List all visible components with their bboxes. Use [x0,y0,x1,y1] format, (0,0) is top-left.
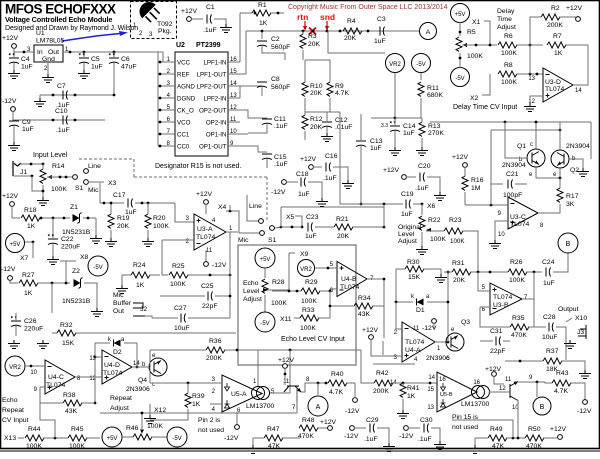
svg-text:R42: R42 [376,370,389,377]
svg-text:X10: X10 [575,315,587,322]
svg-text:-5V: -5V [93,265,102,271]
svg-text:R38: R38 [63,392,76,399]
svg-text:11: 11 [413,326,420,332]
svg-text:100K: 100K [301,298,317,305]
svg-text:CK_O: CK_O [177,108,194,115]
svg-text:4.7K: 4.7K [335,90,349,97]
svg-text:-12V: -12V [345,408,360,415]
svg-text:c: c [530,142,533,148]
svg-text:REF: REF [177,72,190,79]
svg-text:C9: C9 [22,119,31,126]
svg-text:1uF: 1uF [543,280,555,287]
svg-text:1uF: 1uF [22,126,34,133]
svg-text:Q1: Q1 [517,143,526,150]
svg-text:.1uF: .1uF [418,436,432,443]
svg-text:Copyright Music From Outer Spa: Copyright Music From Outer Space LLC 201… [288,4,448,11]
svg-text:LM13700: LM13700 [461,401,490,408]
svg-text:C12: C12 [335,117,348,124]
svg-text:100K: 100K [26,443,42,450]
svg-text:X13: X13 [4,435,16,442]
svg-text:Voltage Controlled Echo Module: Voltage Controlled Echo Module [5,15,112,24]
svg-text:1K: 1K [407,393,416,400]
svg-text:AGND: AGND [177,84,195,91]
svg-text:1uF: 1uF [370,145,382,152]
svg-text:X2: X2 [470,95,479,102]
svg-text:200K: 200K [206,355,222,362]
svg-text:560pF: 560pF [271,44,290,51]
svg-text:S1: S1 [75,185,84,192]
svg-text:.1uF: .1uF [323,175,337,182]
svg-text:R50: R50 [528,426,541,433]
svg-text:R9: R9 [335,83,344,90]
svg-text:T092: T092 [157,21,173,28]
svg-text:R18: R18 [24,207,37,214]
svg-text:-12V: -12V [2,98,17,105]
svg-text:Line: Line [249,203,262,210]
svg-text:A: A [426,29,431,36]
svg-text:.1uF: .1uF [203,27,217,34]
svg-text:C4: C4 [21,56,30,63]
svg-text:-12V: -12V [344,433,359,440]
svg-text:U5-B: U5-B [440,392,453,398]
svg-text:560pF: 560pF [271,84,290,91]
svg-text:OP1-OUT: OP1-OUT [199,144,227,151]
svg-text:Mic: Mic [113,292,124,299]
svg-text:14: 14 [428,375,435,381]
svg-text:C13: C13 [370,138,383,145]
svg-text:VR2: VR2 [300,267,312,273]
svg-text:43K: 43K [358,311,371,318]
svg-text:+12V: +12V [2,193,19,200]
svg-text:In: In [37,49,43,56]
svg-text:47K: 47K [492,443,505,450]
svg-text:R22: R22 [428,217,441,224]
svg-text:14: 14 [133,361,140,367]
svg-text:470K: 470K [298,433,314,440]
svg-text:C20: C20 [418,163,431,170]
svg-text:Adjust: Adjust [497,24,516,31]
svg-text:R26: R26 [510,259,523,266]
svg-text:snd: snd [320,12,335,22]
svg-text:10uF: 10uF [542,334,558,341]
svg-text:OP2-IN: OP2-IN [206,120,227,127]
svg-text:200K: 200K [547,22,563,29]
svg-text:.1uF: .1uF [364,436,378,443]
svg-text:PT2399: PT2399 [196,42,221,49]
svg-text:+12V: +12V [550,426,567,433]
svg-text:R5: R5 [467,29,476,36]
svg-text:-12V: -12V [271,189,286,196]
svg-text:Input Level: Input Level [33,152,68,159]
svg-text:15K: 15K [62,340,75,347]
svg-text:100pF: 100pF [503,192,522,199]
svg-text:Gnd: Gnd [42,56,55,63]
svg-text:20K: 20K [310,124,323,131]
svg-text:15K: 15K [408,274,421,281]
svg-text:R33: R33 [302,307,315,314]
svg-text:LPF2-OUT: LPF2-OUT [197,84,227,91]
svg-text:R16: R16 [471,177,484,184]
svg-text:+12V: +12V [300,156,317,163]
svg-text:470K: 470K [526,443,542,450]
svg-text:R49: R49 [490,426,503,433]
svg-text:R48: R48 [302,417,315,424]
svg-text:OP1-IN: OP1-IN [206,132,227,139]
svg-text:X8: X8 [80,254,89,261]
svg-text:R4: R4 [347,18,356,25]
svg-text:D1: D1 [416,307,425,314]
svg-text:rtn: rtn [297,12,308,22]
svg-text:OP2-OUT: OP2-OUT [199,108,227,115]
svg-text:Pkg.: Pkg. [158,28,172,35]
svg-text:100K: 100K [300,325,316,332]
svg-text:-12V: -12V [224,435,239,442]
svg-text:R25: R25 [172,263,185,270]
svg-text:R10: R10 [310,83,323,90]
svg-text:100K: 100K [147,423,163,430]
svg-text:15: 15 [427,387,434,393]
svg-text:R20: R20 [153,215,166,222]
svg-text:U4-C: U4-C [48,374,64,381]
svg-text:R6: R6 [504,33,513,40]
svg-text:Echo: Echo [243,280,259,287]
svg-text:C11: C11 [274,116,286,123]
svg-text:Adjust: Adjust [110,405,129,412]
svg-text:CV Input: CV Input [2,417,29,424]
svg-text:100K: 100K [430,236,446,243]
svg-text:+12V: +12V [181,8,198,15]
svg-text:200K: 200K [373,388,389,395]
svg-text:TL074: TL074 [46,382,65,389]
svg-text:+12V: +12V [320,419,337,426]
svg-text:R32: R32 [60,322,73,329]
svg-text:TL074: TL074 [405,339,424,346]
svg-text:J2: J2 [140,306,147,313]
svg-text:Mic: Mic [238,237,249,244]
svg-text:+12V: +12V [278,357,295,364]
svg-text:Mic: Mic [88,187,99,194]
svg-text:C28: C28 [543,314,556,321]
svg-text:1uF: 1uF [21,64,33,71]
svg-text:+5V: +5V [10,242,21,248]
svg-text:20K: 20K [337,233,350,240]
svg-text:Q2: Q2 [570,167,579,174]
svg-text:100K: 100K [501,50,517,57]
svg-text:C1: C1 [206,4,215,11]
svg-text:220uF: 220uF [24,326,43,333]
svg-text:Repeat: Repeat [110,395,132,402]
svg-text:R37: R37 [546,348,559,355]
svg-text:C8: C8 [271,76,280,83]
svg-text:100K: 100K [271,300,287,307]
svg-text:R17: R17 [566,193,579,200]
svg-text:16: 16 [439,377,446,383]
svg-text:LPF2-IN: LPF2-IN [203,96,226,103]
svg-text:Time: Time [497,16,512,23]
svg-text:1K: 1K [24,290,33,297]
svg-text:1N5231B: 1N5231B [62,298,91,305]
svg-text:43K: 43K [65,408,78,415]
svg-text:LPF1-OUT: LPF1-OUT [197,72,227,79]
svg-text:1K: 1K [554,50,563,57]
svg-text:1K: 1K [136,282,145,289]
svg-text:10: 10 [498,232,505,238]
svg-text:C3: C3 [377,16,386,23]
svg-text:1N5231B: 1N5231B [62,229,91,236]
svg-text:10uF: 10uF [174,325,190,332]
svg-text:B: B [540,404,545,411]
svg-text:C15: C15 [274,154,287,161]
svg-text:R45: R45 [71,426,84,433]
svg-text:R46: R46 [126,425,139,432]
svg-text:CC1: CC1 [177,132,190,139]
svg-text:LPF1-IN: LPF1-IN [203,60,226,67]
svg-text:22pF: 22pF [202,303,218,310]
svg-text:1K: 1K [259,20,268,27]
svg-text:J3: J3 [577,329,584,336]
svg-text:S1: S1 [268,237,277,244]
svg-text:270K: 270K [428,130,444,137]
svg-text:R34: R34 [358,295,371,302]
svg-text:-12V: -12V [399,433,414,440]
svg-text:Echo Level CV Input: Echo Level CV Input [281,336,345,343]
svg-text:.01uF: .01uF [335,124,352,131]
svg-text:+12V: +12V [452,154,469,161]
svg-text:C27: C27 [174,305,187,312]
svg-text:DGND: DGND [177,96,196,103]
svg-text:U3-D: U3-D [545,79,561,86]
svg-text:Level: Level [243,288,260,295]
svg-text:4.7K: 4.7K [554,388,568,395]
svg-text:R14: R14 [52,163,65,170]
svg-text:C29: C29 [366,417,379,424]
svg-text:13: 13 [528,76,535,82]
svg-text:11: 11 [505,377,512,383]
svg-text:C25: C25 [201,283,214,290]
svg-text:Line: Line [88,163,101,170]
svg-text:Out: Out [113,308,124,315]
svg-text:C18: C18 [296,171,309,178]
svg-text:+12V: +12V [383,167,400,174]
svg-text:.1uF: .1uF [415,185,429,192]
svg-text:U3-C: U3-C [510,214,526,221]
svg-text:X1: X1 [472,19,481,26]
svg-text:R43: R43 [556,370,569,377]
svg-text:+12V: +12V [362,327,379,334]
svg-text:-5V: -5V [260,321,269,327]
svg-text:+5V: +5V [260,257,271,263]
svg-text:1K: 1K [27,223,36,230]
svg-text:C23: C23 [306,214,319,221]
svg-text:Designed and Drawn by Raymond: Designed and Drawn by Raymond J. Wilson [5,25,138,32]
svg-text:2N3904: 2N3904 [566,143,590,150]
svg-text:U3-A: U3-A [197,226,213,233]
svg-text:+5V: +5V [455,12,466,18]
svg-text:13: 13 [427,405,434,411]
svg-text:R2: R2 [551,5,560,12]
svg-text:U5-A: U5-A [231,391,247,398]
svg-text:X3: X3 [108,180,117,187]
svg-text:Output: Output [558,306,579,313]
svg-text:R41: R41 [407,385,420,392]
svg-text:R7: R7 [553,33,562,40]
svg-text:-12V: -12V [422,325,437,332]
svg-text:R47: R47 [267,426,280,433]
svg-text:20K: 20K [117,223,130,230]
svg-text:-12V: -12V [212,262,227,269]
svg-text:R40: R40 [331,371,344,378]
svg-text:4.7K: 4.7K [329,389,343,396]
svg-text:1uF: 1uF [403,130,415,137]
svg-text:Adjust: Adjust [398,238,417,245]
svg-text:X4: X4 [218,204,227,211]
svg-text:TL074: TL074 [103,370,122,377]
svg-text:1K: 1K [192,401,201,408]
svg-text:100K: 100K [509,277,525,284]
svg-text:47uF: 47uF [121,64,137,71]
svg-text:+12V: +12V [196,191,213,198]
svg-text:Original: Original [398,224,422,231]
svg-text:D2: D2 [113,349,122,356]
svg-text:not used: not used [198,427,224,434]
svg-text:LM13700: LM13700 [246,403,275,410]
svg-text:TL074: TL074 [545,86,564,93]
svg-text:2N3904: 2N3904 [502,162,526,169]
svg-text:Q4: Q4 [138,377,147,384]
svg-text:R31: R31 [452,260,465,267]
svg-text:Q3: Q3 [461,319,470,326]
svg-text:Repeat: Repeat [2,407,24,414]
svg-text:Z2: Z2 [72,268,80,275]
svg-text:U4-A: U4-A [405,347,421,354]
svg-text:R28: R28 [272,279,285,286]
svg-text:TL074: TL074 [340,284,359,291]
svg-text:20K: 20K [344,35,357,42]
svg-text:U4-D: U4-D [104,362,120,369]
svg-text:.1uF: .1uF [56,127,70,134]
svg-text:C17: C17 [113,192,126,199]
svg-text:Delay: Delay [497,8,515,15]
svg-text:C31: C31 [490,328,503,335]
svg-text:Pin 2 is: Pin 2 is [198,417,221,424]
svg-text:VR2: VR2 [389,62,401,68]
svg-text:100K: 100K [170,281,186,288]
svg-text:R44: R44 [28,426,41,433]
svg-text:47K: 47K [268,443,281,450]
svg-text:VCO: VCO [177,120,191,127]
svg-text:TL074: TL074 [493,294,512,301]
svg-text:Echo: Echo [2,397,18,404]
svg-text:C2: C2 [271,36,280,43]
svg-text:CC0: CC0 [177,144,190,151]
svg-text:1uF: 1uF [91,64,103,71]
svg-text:12: 12 [528,99,535,105]
svg-text:Level: Level [398,231,415,238]
svg-text:X6: X6 [427,203,436,210]
svg-text:3.3: 3.3 [381,123,388,129]
svg-text:1uF: 1uF [401,211,413,218]
svg-text:1M: 1M [471,185,481,192]
svg-text:220uF: 220uF [61,244,80,251]
svg-text:+12V: +12V [2,35,19,42]
svg-text:U2: U2 [176,42,185,49]
svg-text:R27: R27 [22,272,35,279]
svg-text:-12V: -12V [1,266,16,273]
svg-text:14: 14 [575,88,582,94]
svg-text:470K: 470K [511,332,527,339]
svg-text:100K: 100K [51,186,67,193]
svg-text:3K: 3K [566,201,575,208]
svg-text:U3-B: U3-B [493,302,509,309]
svg-text:C24: C24 [542,259,555,266]
svg-text:.1uF: .1uF [274,161,288,168]
svg-text:U1: U1 [36,30,45,37]
svg-text:R29: R29 [305,279,318,286]
svg-text:TL074: TL074 [196,234,215,241]
svg-text:VR2: VR2 [9,365,21,371]
svg-text:+5V: +5V [107,436,118,442]
svg-text:C19: C19 [401,191,414,198]
svg-text:Z1: Z1 [70,204,78,211]
svg-text:R35: R35 [512,315,525,322]
svg-text:C26: C26 [24,318,37,325]
svg-text:R23: R23 [449,217,462,224]
svg-text:.1uF: .1uF [274,123,288,130]
svg-text:12: 12 [499,386,506,392]
svg-text:-5V: -5V [455,76,464,82]
svg-text:1uF: 1uF [298,191,310,198]
svg-text:-5V: -5V [416,62,425,68]
svg-text:100K: 100K [450,238,465,245]
svg-text:+12V: +12V [566,5,583,12]
svg-text:Delay Time CV Input: Delay Time CV Input [453,104,517,111]
svg-text:J1: J1 [20,169,27,176]
svg-text:C16: C16 [325,153,338,160]
svg-text:C5: C5 [91,56,100,63]
svg-text:C21: C21 [506,171,519,178]
svg-text:X7: X7 [20,255,29,262]
svg-text:C10: C10 [55,108,68,115]
svg-text:C7: C7 [57,83,66,90]
svg-text:LM78L05: LM78L05 [36,38,65,45]
svg-text:11: 11 [283,379,290,385]
svg-text:-5V: -5V [172,436,181,442]
svg-text:10: 10 [30,370,37,376]
svg-text:100K: 100K [501,79,517,86]
svg-text:Out: Out [48,49,59,56]
svg-text:C30: C30 [420,417,433,424]
svg-text:R30: R30 [407,259,420,266]
svg-text:VCC: VCC [177,60,191,67]
svg-text:C6: C6 [121,56,130,63]
svg-text:20K: 20K [310,90,323,97]
svg-text:X5: X5 [286,214,295,221]
svg-text:22pF: 22pF [490,348,506,355]
svg-text:R19: R19 [117,215,130,222]
svg-text:X11: X11 [280,316,292,323]
svg-text:R8: R8 [504,62,513,69]
svg-text:Buffer: Buffer [113,300,132,307]
svg-text:100K: 100K [467,53,483,60]
svg-text:R39: R39 [192,393,205,400]
svg-text:U4-B: U4-B [341,276,357,283]
svg-text:Adjust: Adjust [243,296,262,303]
svg-text:C14: C14 [403,123,416,130]
svg-text:-12V: -12V [577,408,592,415]
svg-text:R24: R24 [133,262,146,269]
svg-text:16: 16 [473,380,480,386]
svg-text:1uF: 1uF [374,38,386,45]
